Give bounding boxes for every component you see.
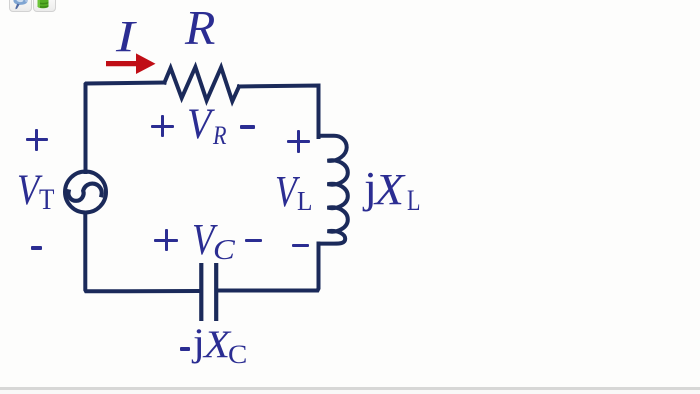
label -jXC X (204, 326, 230, 365)
minus sign of VR (240, 125, 255, 128)
plus sign of VT (26, 138, 48, 141)
current arrow I (red) (106, 53, 156, 74)
resistor R zigzag (165, 67, 240, 101)
label VL subscript L (297, 188, 312, 215)
minus sign of VL (292, 244, 309, 247)
label VC subscript C (213, 236, 235, 265)
capacitor -jXC plate right (214, 263, 218, 321)
label VR subscript R (213, 123, 227, 149)
label I (116, 14, 135, 59)
plus sign of VL (287, 140, 310, 143)
wire: top-left L (left vertical upper + top horizontal to resistor) (86, 83, 165, 173)
label VL (275, 170, 297, 214)
AC source sine wave (68, 184, 101, 201)
toolbar icon button 2 (green database cylinder) (33, 0, 56, 12)
minus sign of -jXC (180, 347, 190, 352)
toolbar icon button 1 (blue paint blob) (9, 0, 32, 12)
label VT (17, 169, 39, 213)
bottom separator line (0, 387, 700, 390)
minus sign of VC (245, 239, 262, 242)
wire: bottom-left horizontal from capacitor + left vertical up to source (85, 213, 198, 291)
inductor jXL coil (4 bumps) (319, 136, 348, 246)
label R (185, 5, 215, 53)
label -jXC j (193, 323, 205, 363)
label jXL (364, 166, 377, 210)
label -jXC subscript C (228, 342, 247, 368)
plus sign of VC (154, 239, 178, 242)
label jXL subscript L (407, 187, 420, 216)
plus sign of VR (151, 125, 174, 128)
wire: right vertical below inductor + bottom-right horizontal to capacitor (218, 244, 319, 291)
capacitor -jXC plate left (199, 263, 203, 321)
AC source VT circle (65, 172, 106, 213)
minus sign of VT (31, 246, 43, 250)
label VT subscript T (39, 186, 54, 215)
wire: top-right horizontal + right vertical down to inductor (239, 86, 319, 138)
label VC (192, 217, 214, 262)
label VR (187, 103, 211, 146)
